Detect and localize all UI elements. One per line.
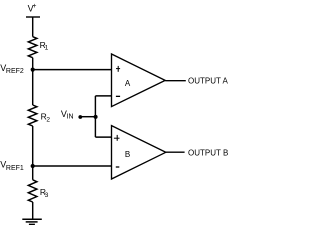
node VIN junction dot xyxy=(94,115,98,119)
wire VIN lower branch to op-amp B non-inverting input xyxy=(95,136,111,138)
svg-text:OUTPUT B: OUTPUT B xyxy=(188,149,228,158)
wire VIN junction vertical branch xyxy=(94,96,96,137)
wire VIN upper branch to op-amp A inverting input xyxy=(95,95,111,97)
op-amp A inverting pin - xyxy=(116,95,120,97)
resistor R1 xyxy=(28,37,37,58)
wire V+ bar to R1 xyxy=(32,17,34,37)
resistor R2 xyxy=(28,105,37,126)
svg-text:A: A xyxy=(125,79,131,88)
svg-text:3: 3 xyxy=(45,192,49,199)
label R1 xyxy=(40,40,49,52)
svg-text:REF1: REF1 xyxy=(6,165,24,172)
svg-text:OUTPUT A: OUTPUT A xyxy=(188,77,229,86)
wire R3 to ground xyxy=(32,202,34,219)
power V+ label xyxy=(28,3,37,14)
label VIN xyxy=(61,109,74,121)
op-amp B inverting pin - xyxy=(116,166,120,168)
op-amp A (comparator) xyxy=(112,54,166,107)
ground xyxy=(22,219,42,224)
op-amp B (comparator) xyxy=(112,126,166,179)
wire VIN terminal to junction xyxy=(80,116,96,118)
node VREF2 junction dot xyxy=(31,68,35,72)
op-amp A non-inverting pin + xyxy=(116,66,120,72)
wire VREF2 node to R2 xyxy=(32,70,34,105)
op-amp B non-inverting pin + xyxy=(114,135,120,141)
svg-text:2: 2 xyxy=(46,116,50,123)
wire VREF1 to op-amp B inverting input xyxy=(33,165,112,167)
node VREF1 junction dot xyxy=(31,164,35,168)
svg-text:B: B xyxy=(125,150,130,159)
wire R2 to node VREF1 xyxy=(32,126,34,166)
label R2 xyxy=(41,112,51,124)
svg-text:1: 1 xyxy=(45,45,49,52)
svg-text:IN: IN xyxy=(67,114,74,121)
wire VREF1 node to R3 xyxy=(32,166,34,180)
svg-text:REF2: REF2 xyxy=(6,68,24,75)
wire VREF2 to op-amp A non-inverting input xyxy=(33,69,112,71)
node VIN input terminal dot xyxy=(78,115,82,119)
wire R1 to node VREF2 xyxy=(32,58,34,70)
label VREF2 xyxy=(0,63,24,75)
resistor R3 xyxy=(28,180,37,202)
wire op-amp A output xyxy=(165,80,186,82)
power V+ rail bar xyxy=(26,16,40,18)
svg-text:+: + xyxy=(32,3,36,10)
label VREF1 xyxy=(0,160,24,172)
wire op-amp B output xyxy=(166,151,185,153)
label R3 xyxy=(40,187,49,199)
